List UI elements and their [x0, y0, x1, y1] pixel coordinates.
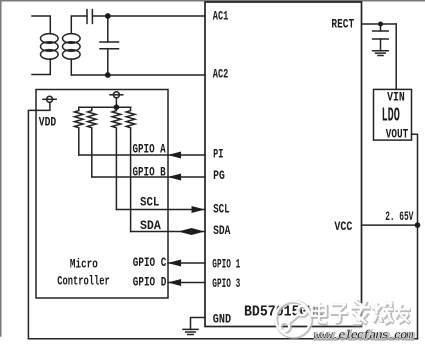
svg-text:GPIO A: GPIO A	[133, 143, 166, 157]
junction node VCC 2.65V	[415, 222, 421, 228]
page border left	[0, 0, 2, 336]
svg-text:SCL: SCL	[140, 195, 159, 210]
wire GPIO C / GPIO 1	[168, 262, 205, 264]
arrow into GPIO B	[169, 174, 181, 180]
capacitor C1 series plates	[86, 10, 88, 24]
svg-text:GND: GND	[213, 311, 231, 327]
wire pull-up stub	[115, 98, 117, 107]
transformer T1 secondary bottom lead	[70, 59, 72, 75]
svg-text:PI: PI	[213, 148, 223, 162]
capacitor C3 stub	[380, 24, 382, 31]
svg-text:RECT: RECT	[331, 17, 354, 32]
svg-text:GPIO B: GPIO B	[133, 166, 166, 180]
svg-text:www.elecfans.com: www.elecfans.com	[314, 329, 415, 343]
wire resistor top rail	[79, 106, 131, 108]
arrow SDA left	[179, 228, 191, 234]
arrow into SCL	[192, 206, 204, 212]
svg-text:Micro: Micro	[70, 258, 98, 272]
svg-text:VDD: VDD	[39, 115, 56, 130]
wire SDA	[131, 231, 205, 233]
svg-text:VIN: VIN	[387, 90, 405, 105]
arrow into GPIO C	[169, 260, 181, 266]
ground symbol chip	[183, 328, 198, 330]
junction node RECT cap	[378, 22, 383, 27]
terminal VDD	[47, 96, 53, 102]
watermark text dianzifashaoyou face	[312, 300, 410, 323]
arrow SDA right	[192, 228, 204, 234]
wire C3 to ground	[380, 39, 382, 51]
wire GPIO B / PG	[92, 176, 205, 178]
svg-text:2. 65V: 2. 65V	[385, 210, 414, 225]
wire C2 bottom	[107, 49, 109, 75]
capacitor C2 parallel plates	[100, 41, 119, 43]
ground symbol C3	[373, 50, 389, 52]
wire AC2 bottom line	[71, 74, 205, 76]
micro controller U2 outline	[36, 90, 168, 299]
wire VDD supply rail	[28, 102, 50, 338]
wire GPIO D / GPIO 3	[168, 282, 205, 284]
wire GND pin	[191, 318, 206, 330]
wire node to parallel cap	[107, 16, 109, 42]
svg-text:GPIO D: GPIO D	[133, 275, 167, 290]
transformer T1 primary winding	[41, 34, 59, 44]
svg-text:VCC: VCC	[334, 219, 352, 235]
wire right riser to VOUT	[412, 134, 418, 339]
wire GPIO A / PI	[79, 154, 205, 156]
wire VCC	[362, 224, 418, 226]
svg-text:AC2: AC2	[213, 68, 229, 82]
svg-text:SDA: SDA	[213, 224, 230, 239]
svg-text:AC1: AC1	[213, 10, 229, 24]
svg-text:GPIO 3: GPIO 3	[212, 277, 240, 292]
resistor R4	[126, 107, 135, 231]
svg-text:GPIO 1: GPIO 1	[212, 258, 240, 273]
resistor R3	[112, 107, 121, 209]
wire SCL	[116, 209, 205, 211]
chip U1 BD57015GWL outline	[205, 2, 362, 327]
svg-text:Controller: Controller	[57, 275, 109, 289]
arrow into GPIO A	[169, 152, 181, 158]
resistor R1	[75, 107, 84, 155]
capacitor C3 plates	[373, 30, 389, 32]
transformer T1 secondary top lead	[71, 16, 87, 34]
resistor R2	[88, 107, 97, 177]
arrow into GPIO D	[169, 279, 181, 285]
transformer T1 primary top lead	[32, 16, 50, 34]
LDO U3 outline	[374, 89, 412, 140]
wire RECT	[362, 23, 397, 25]
wire C1 to AC1	[92, 15, 205, 17]
junction node C1/C2 top	[105, 13, 111, 19]
transformer T1 secondary winding	[63, 34, 81, 44]
watermark text url	[314, 329, 416, 344]
svg-text:SCL: SCL	[213, 203, 230, 217]
watermark text dianzifashaoyou shadow	[313, 301, 411, 324]
svg-text:GPIO C: GPIO C	[133, 256, 167, 271]
page border top	[0, 0, 425, 2]
svg-text:SDA: SDA	[140, 218, 161, 233]
svg-text:VOUT: VOUT	[386, 127, 409, 142]
svg-text:LDO: LDO	[382, 104, 400, 127]
junction node C2 bottom	[105, 72, 111, 78]
svg-text:PG: PG	[213, 169, 225, 184]
wire RECT to VIN	[395, 24, 397, 89]
transformer T1 primary bottom lead	[32, 59, 50, 75]
junction node pull-up rail	[114, 104, 120, 110]
wire bottom supply rail	[28, 338, 417, 340]
terminal pull-up supply	[113, 92, 119, 98]
